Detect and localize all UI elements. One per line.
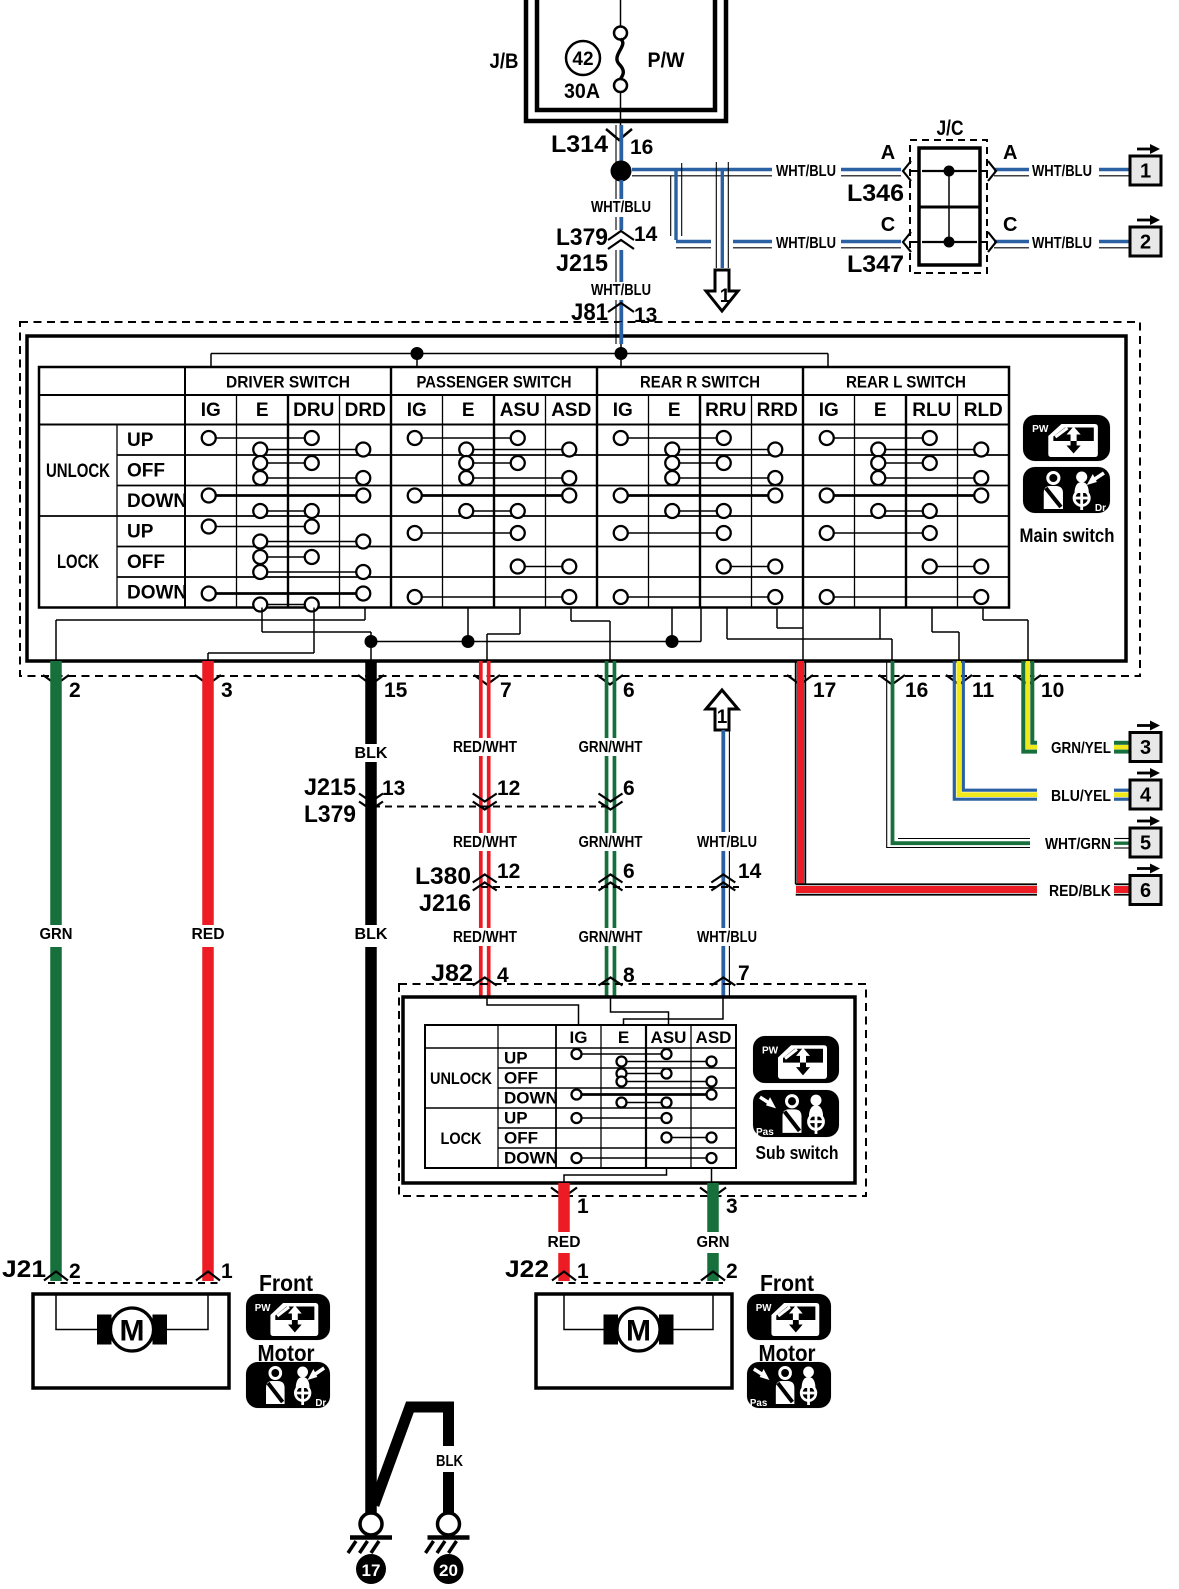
svg-text:Front: Front bbox=[259, 1270, 313, 1296]
svg-text:OFF: OFF bbox=[504, 1129, 538, 1148]
svg-text:L379: L379 bbox=[556, 224, 608, 251]
svg-text:UP: UP bbox=[127, 430, 154, 451]
svg-text:WHT/BLU: WHT/BLU bbox=[1032, 163, 1092, 180]
svg-text:UP: UP bbox=[127, 522, 154, 543]
svg-text:GRN/WHT: GRN/WHT bbox=[579, 834, 643, 851]
svg-text:14: 14 bbox=[738, 860, 762, 883]
svg-text:UP: UP bbox=[504, 1049, 528, 1068]
svg-text:3: 3 bbox=[1140, 737, 1151, 759]
svg-text:RED/WHT: RED/WHT bbox=[453, 929, 517, 946]
svg-text:WHT/BLU: WHT/BLU bbox=[1032, 235, 1092, 252]
svg-text:ASU: ASU bbox=[651, 1028, 687, 1047]
svg-text:WHT/GRN: WHT/GRN bbox=[1045, 836, 1111, 853]
svg-text:1: 1 bbox=[221, 1260, 233, 1283]
svg-text:PW: PW bbox=[756, 1303, 772, 1314]
svg-text:A: A bbox=[1003, 142, 1017, 164]
svg-text:Pas: Pas bbox=[750, 1398, 768, 1409]
svg-text:2: 2 bbox=[69, 679, 81, 702]
svg-text:PW: PW bbox=[1032, 424, 1049, 435]
svg-text:GRN: GRN bbox=[697, 1234, 730, 1251]
svg-text:L380: L380 bbox=[415, 863, 471, 890]
svg-text:DOWN: DOWN bbox=[127, 583, 187, 604]
svg-text:L346: L346 bbox=[847, 180, 904, 207]
svg-text:DRIVER SWITCH: DRIVER SWITCH bbox=[226, 373, 350, 392]
svg-text:GRN/YEL: GRN/YEL bbox=[1051, 740, 1111, 757]
svg-text:J216: J216 bbox=[419, 890, 471, 917]
svg-text:1: 1 bbox=[577, 1260, 589, 1283]
svg-text:10: 10 bbox=[1041, 679, 1064, 702]
svg-text:J22: J22 bbox=[505, 1256, 549, 1283]
svg-text:16: 16 bbox=[905, 679, 928, 702]
svg-text:REAR R SWITCH: REAR R SWITCH bbox=[640, 373, 760, 392]
svg-text:15: 15 bbox=[384, 679, 408, 702]
svg-text:6: 6 bbox=[1140, 880, 1151, 902]
svg-text:IG: IG bbox=[819, 400, 839, 421]
svg-text:IG: IG bbox=[570, 1028, 588, 1047]
svg-text:RED/BLK: RED/BLK bbox=[1049, 883, 1111, 900]
svg-text:UNLOCK: UNLOCK bbox=[430, 1069, 493, 1088]
svg-text:UP: UP bbox=[504, 1109, 528, 1128]
svg-text:3: 3 bbox=[726, 1195, 738, 1218]
svg-text:L314: L314 bbox=[551, 131, 609, 158]
svg-text:LOCK: LOCK bbox=[57, 552, 99, 573]
svg-text:PW: PW bbox=[762, 1045, 779, 1056]
svg-text:13: 13 bbox=[634, 304, 657, 327]
svg-text:WHT/BLU: WHT/BLU bbox=[591, 199, 651, 216]
svg-text:Dr: Dr bbox=[315, 1398, 326, 1409]
svg-text:2: 2 bbox=[69, 1260, 81, 1283]
svg-text:Sub switch: Sub switch bbox=[756, 1143, 839, 1163]
svg-text:E: E bbox=[668, 400, 681, 421]
svg-text:7: 7 bbox=[738, 962, 750, 985]
svg-text:J82: J82 bbox=[431, 960, 473, 987]
svg-text:Dr: Dr bbox=[1095, 503, 1106, 514]
svg-text:UNLOCK: UNLOCK bbox=[46, 461, 110, 482]
svg-text:6: 6 bbox=[623, 679, 635, 702]
svg-text:RRD: RRD bbox=[757, 400, 798, 421]
svg-text:BLK: BLK bbox=[355, 745, 388, 762]
svg-text:DRU: DRU bbox=[293, 400, 334, 421]
svg-text:DRD: DRD bbox=[345, 400, 386, 421]
svg-text:J215: J215 bbox=[556, 250, 608, 277]
svg-text:LOCK: LOCK bbox=[441, 1129, 483, 1148]
svg-text:RED/WHT: RED/WHT bbox=[453, 739, 517, 756]
svg-text:E: E bbox=[462, 400, 475, 421]
svg-text:WHT/BLU: WHT/BLU bbox=[591, 282, 651, 299]
svg-text:IG: IG bbox=[407, 400, 427, 421]
svg-text:RRU: RRU bbox=[705, 400, 746, 421]
svg-text:GRN/WHT: GRN/WHT bbox=[579, 929, 643, 946]
svg-text:ASD: ASD bbox=[551, 400, 591, 421]
svg-text:C: C bbox=[1003, 214, 1017, 236]
svg-text:REAR L SWITCH: REAR L SWITCH bbox=[846, 373, 966, 392]
svg-text:6: 6 bbox=[623, 777, 635, 800]
svg-text:E: E bbox=[618, 1028, 629, 1047]
svg-text:M: M bbox=[120, 1315, 145, 1348]
svg-text:WHT/BLU: WHT/BLU bbox=[697, 929, 757, 946]
svg-text:L379: L379 bbox=[304, 801, 356, 828]
svg-text:1: 1 bbox=[1140, 161, 1151, 183]
svg-text:RED: RED bbox=[548, 1234, 581, 1251]
svg-text:J21: J21 bbox=[2, 1256, 46, 1283]
svg-text:42: 42 bbox=[572, 49, 593, 70]
svg-text:ASD: ASD bbox=[696, 1028, 732, 1047]
svg-text:BLK: BLK bbox=[355, 926, 388, 943]
svg-text:RED: RED bbox=[192, 926, 225, 943]
svg-text:2: 2 bbox=[726, 1260, 738, 1283]
svg-text:P/W: P/W bbox=[648, 49, 685, 72]
svg-text:WHT/BLU: WHT/BLU bbox=[776, 163, 836, 180]
svg-text:J/C: J/C bbox=[937, 117, 964, 140]
svg-text:BLU/YEL: BLU/YEL bbox=[1051, 788, 1111, 805]
svg-text:L347: L347 bbox=[847, 251, 904, 278]
svg-text:RLD: RLD bbox=[964, 400, 1003, 421]
svg-text:OFF: OFF bbox=[504, 1069, 538, 1088]
svg-text:E: E bbox=[874, 400, 887, 421]
svg-text:12: 12 bbox=[497, 860, 520, 883]
svg-text:WHT/BLU: WHT/BLU bbox=[776, 235, 836, 252]
svg-text:30A: 30A bbox=[564, 80, 600, 103]
svg-text:Pas: Pas bbox=[756, 1127, 774, 1138]
svg-text:1: 1 bbox=[720, 286, 731, 307]
svg-text:11: 11 bbox=[972, 679, 995, 702]
svg-text:2: 2 bbox=[1140, 232, 1151, 254]
svg-text:IG: IG bbox=[201, 400, 221, 421]
svg-text:IG: IG bbox=[613, 400, 633, 421]
svg-text:Main switch: Main switch bbox=[1020, 526, 1115, 547]
svg-text:E: E bbox=[256, 400, 269, 421]
svg-text:WHT/BLU: WHT/BLU bbox=[697, 834, 757, 851]
svg-text:5: 5 bbox=[1140, 833, 1151, 855]
svg-text:14: 14 bbox=[634, 223, 658, 246]
svg-text:GRN: GRN bbox=[40, 926, 73, 943]
svg-text:3: 3 bbox=[221, 679, 233, 702]
svg-text:RLU: RLU bbox=[912, 400, 951, 421]
svg-text:A: A bbox=[881, 142, 895, 164]
svg-text:J215: J215 bbox=[304, 774, 356, 801]
svg-text:DOWN: DOWN bbox=[127, 491, 187, 512]
svg-text:12: 12 bbox=[497, 777, 520, 800]
svg-text:17: 17 bbox=[362, 1561, 381, 1580]
svg-text:ASU: ASU bbox=[500, 400, 540, 421]
svg-text:BLK: BLK bbox=[436, 1453, 463, 1470]
svg-text:J/B: J/B bbox=[490, 50, 519, 73]
svg-text:7: 7 bbox=[500, 679, 512, 702]
svg-text:DOWN: DOWN bbox=[504, 1149, 558, 1168]
svg-text:PASSENGER SWITCH: PASSENGER SWITCH bbox=[417, 373, 572, 392]
svg-text:6: 6 bbox=[623, 860, 635, 883]
svg-text:1: 1 bbox=[577, 1195, 589, 1218]
svg-text:Front: Front bbox=[760, 1270, 814, 1296]
svg-text:RED/WHT: RED/WHT bbox=[453, 834, 517, 851]
svg-text:20: 20 bbox=[439, 1561, 458, 1580]
svg-text:13: 13 bbox=[382, 777, 405, 800]
svg-text:PW: PW bbox=[255, 1303, 271, 1314]
svg-text:17: 17 bbox=[813, 679, 836, 702]
svg-text:1: 1 bbox=[717, 707, 728, 728]
svg-text:16: 16 bbox=[630, 136, 653, 159]
svg-text:GRN/WHT: GRN/WHT bbox=[579, 739, 643, 756]
svg-text:OFF: OFF bbox=[127, 461, 165, 482]
svg-text:M: M bbox=[626, 1315, 651, 1348]
svg-text:C: C bbox=[881, 214, 895, 236]
svg-text:DOWN: DOWN bbox=[504, 1089, 558, 1108]
svg-text:4: 4 bbox=[1140, 785, 1152, 807]
svg-text:OFF: OFF bbox=[127, 552, 165, 573]
